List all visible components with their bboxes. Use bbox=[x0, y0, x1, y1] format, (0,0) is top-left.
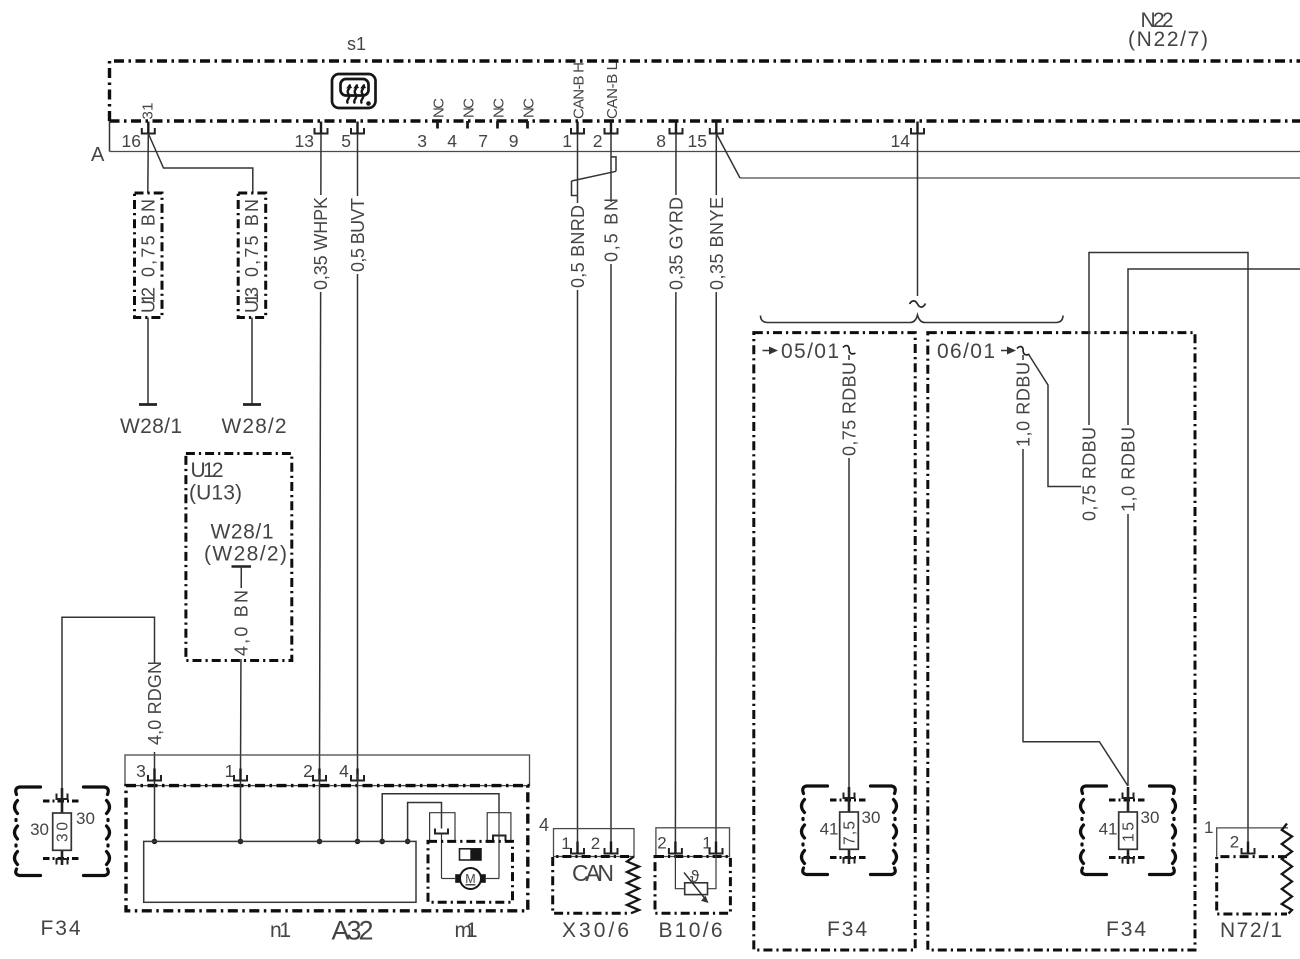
fuse F34 (in 05/01) bbox=[802, 786, 897, 941]
svg-text:A: A bbox=[91, 144, 105, 166]
svg-text:41: 41 bbox=[1099, 820, 1118, 839]
svg-text:0,35 GYRD: 0,35 GYRD bbox=[667, 197, 687, 290]
fuse F34 (in 06/01) bbox=[1081, 786, 1176, 941]
svg-text:2: 2 bbox=[1230, 833, 1239, 852]
svg-text:A32: A32 bbox=[332, 916, 374, 946]
svg-text:CAN-B L: CAN-B L bbox=[604, 62, 621, 119]
B10/6 connector strip bbox=[656, 828, 730, 857]
svg-text:m1: m1 bbox=[455, 919, 478, 942]
svg-text:9: 9 bbox=[509, 131, 519, 151]
svg-text:06/01: 06/01 bbox=[937, 340, 995, 363]
polarity indicator bbox=[460, 849, 482, 860]
svg-text:X30/6: X30/6 bbox=[562, 919, 629, 942]
wire 4,0 BN (ground to A32 pin 1) bbox=[232, 567, 252, 775]
svg-text:U13: U13 bbox=[242, 287, 262, 313]
svg-text:(N22/7): (N22/7) bbox=[1128, 28, 1208, 51]
A32 pin 2 bbox=[313, 769, 326, 782]
svg-text:0,35 WHPK: 0,35 WHPK bbox=[311, 197, 331, 290]
pin 5 bbox=[341, 122, 364, 152]
internal wire upper rail to m1 bbox=[382, 794, 499, 842]
wire 4,0 RDGN (F34 to A32 pin 3) bbox=[62, 617, 165, 800]
ground terminal W28/2 bbox=[222, 405, 287, 439]
fuse F34 (bottom left) bbox=[15, 787, 110, 940]
svg-text:0,75 BN: 0,75 BN bbox=[139, 199, 159, 277]
ground terminal W28/1 bbox=[120, 405, 182, 439]
control module A32 box (dash-dot) bbox=[126, 786, 528, 911]
svg-text:31: 31 bbox=[140, 103, 157, 120]
svg-text:N72/1: N72/1 bbox=[1220, 919, 1282, 942]
A32 pin 3 bbox=[148, 769, 161, 782]
X30/6 connector strip bbox=[554, 829, 635, 857]
distribution brace over 05/01 and 06/01 bbox=[761, 315, 1064, 323]
svg-text:1: 1 bbox=[1204, 818, 1213, 837]
svg-text:B10/6: B10/6 bbox=[659, 919, 723, 942]
svg-text:CAN: CAN bbox=[572, 860, 614, 886]
interruption squiggle on pin14 wire bbox=[910, 301, 926, 307]
wire squiggle top 1,0 RDBU in 06/01 bbox=[1016, 346, 1031, 356]
svg-text:4,0 BN: 4,0 BN bbox=[232, 590, 252, 656]
svg-text:2: 2 bbox=[593, 131, 603, 151]
thermistor element bbox=[684, 867, 709, 903]
svg-text:1: 1 bbox=[225, 761, 235, 781]
pin 15 bbox=[688, 122, 723, 152]
wire pin16 to U12 bbox=[147, 134, 150, 194]
wire 1,0 RDBU (right riser to F34 pin) bbox=[1119, 269, 1300, 786]
svg-text:0,35 BNYE: 0,35 BNYE bbox=[707, 197, 727, 290]
pin 7 NC bbox=[478, 98, 507, 151]
svg-text:4: 4 bbox=[339, 761, 349, 781]
pin 1 / CAN-B H bbox=[562, 62, 587, 151]
svg-text:W28/1: W28/1 bbox=[211, 521, 274, 544]
svg-text:M: M bbox=[465, 872, 475, 886]
pin 9 NC bbox=[509, 98, 538, 151]
svg-text:s1: s1 bbox=[347, 34, 366, 54]
defroster icon (heated rear window symbol) bbox=[332, 74, 376, 108]
svg-text:4,0 RDGN: 4,0 RDGN bbox=[145, 661, 165, 745]
wire 0,5 BUVT (pin5 to A32 pin4) bbox=[348, 134, 368, 775]
svg-text:05/01: 05/01 bbox=[781, 340, 839, 363]
svg-text:U12: U12 bbox=[139, 287, 159, 313]
svg-text:30: 30 bbox=[76, 809, 95, 828]
wire U12 to ground W28/1 bbox=[147, 318, 149, 405]
svg-text:7,5: 7,5 bbox=[842, 821, 859, 845]
svg-text:W28/2: W28/2 bbox=[222, 415, 287, 438]
svg-text:CAN-B H: CAN-B H bbox=[571, 62, 588, 119]
svg-text:15: 15 bbox=[688, 131, 707, 151]
svg-text:F34: F34 bbox=[1106, 918, 1146, 941]
junction dots on n1 bbox=[152, 839, 411, 845]
svg-text:ϑ: ϑ bbox=[690, 867, 700, 886]
internal wire lower rail to m1 bbox=[408, 803, 442, 842]
X30/6 pin 2 bbox=[605, 842, 618, 855]
svg-text:2: 2 bbox=[657, 834, 666, 853]
version box 05/01 (dash-dot) bbox=[754, 333, 915, 950]
pin 2 / CAN-B L bbox=[593, 62, 621, 151]
svg-text:0,75 BN: 0,75 BN bbox=[242, 199, 262, 277]
wire 0,5 BN (pin2 to X30/6 pin2) bbox=[602, 134, 622, 847]
svg-text:NC: NC bbox=[521, 98, 538, 118]
wire 0,35 GYRD (pin8 to B10/6 pin2) bbox=[667, 134, 687, 847]
svg-text:F34: F34 bbox=[827, 918, 867, 941]
wire from pin 15 diagonal to lower bus line bbox=[716, 134, 1300, 179]
wire 0,75 RDBU (right riser) bbox=[1080, 253, 1249, 846]
pin 13 bbox=[295, 122, 328, 152]
m1 pin left bbox=[435, 829, 448, 879]
svg-text:0,5 BNRD: 0,5 BNRD bbox=[568, 205, 588, 288]
wire from pin 14 down bbox=[917, 134, 919, 297]
svg-text:0,5 BN: 0,5 BN bbox=[602, 198, 622, 262]
svg-text:3: 3 bbox=[136, 761, 146, 781]
wire stub from squiggle to 0,75 RDBU loop bbox=[1029, 355, 1089, 487]
A32 pin 4 bbox=[351, 769, 364, 782]
connector sleeve U12 (dash-dot box) bbox=[135, 193, 163, 318]
wire pin16 to U13 (diagonal + horizontal) bbox=[148, 134, 253, 194]
m1 connector bracket left bbox=[430, 813, 455, 842]
A32 connector strip bbox=[125, 755, 530, 786]
wire 0,35 WHPK (pin13 to A32 pin2) bbox=[311, 134, 331, 775]
svg-text:30: 30 bbox=[862, 808, 881, 827]
X30/6 pin 1 bbox=[571, 842, 584, 855]
svg-text:30: 30 bbox=[1141, 808, 1160, 827]
svg-text:8: 8 bbox=[656, 131, 666, 151]
B10/6 pin 1 bbox=[710, 842, 723, 855]
N72/1 connector strip bbox=[1217, 828, 1288, 857]
label N22 (N22/7) bbox=[1128, 9, 1208, 51]
twisted pair tie on CAN wires bbox=[572, 157, 617, 196]
svg-text:2: 2 bbox=[303, 761, 313, 781]
sensor internal wires bbox=[675, 854, 716, 889]
motor m1 box (dash-dot) bbox=[428, 841, 513, 902]
pin 14 bbox=[891, 122, 924, 152]
pin 8 bbox=[656, 122, 682, 152]
B10/6 pin 2 bbox=[669, 842, 682, 855]
svg-text:16: 16 bbox=[122, 131, 141, 151]
heater booster N72/1 box (dash-dot, torn right) bbox=[1217, 824, 1292, 943]
pin 4 NC bbox=[447, 98, 477, 151]
ground terminal inside box bbox=[232, 565, 252, 568]
svg-text:2: 2 bbox=[591, 834, 600, 853]
svg-text:1: 1 bbox=[561, 834, 570, 853]
A32 pin 1 bbox=[234, 769, 247, 782]
pin 16 bbox=[122, 122, 155, 152]
m1 pin right bbox=[493, 813, 506, 879]
wire 0,35 BNYE (pin15 to B10/6 pin1) bbox=[707, 134, 727, 847]
svg-text:14: 14 bbox=[891, 131, 911, 151]
wire 1,0 RDBU (to F34 in 06/01, with elbow) bbox=[1014, 355, 1129, 786]
svg-text:1,0 RDBU: 1,0 RDBU bbox=[1119, 427, 1139, 512]
svg-text:5: 5 bbox=[341, 131, 351, 151]
svg-text:NC: NC bbox=[431, 98, 448, 118]
motor M symbol bbox=[442, 868, 500, 889]
N72/1 pin 2 bbox=[1242, 842, 1255, 855]
wires pins to n1 bbox=[155, 775, 358, 842]
temperature sensor B10/6 box (dash-dot) bbox=[655, 857, 730, 914]
svg-text:3: 3 bbox=[417, 131, 427, 151]
label 31 (rotated) bbox=[140, 103, 157, 120]
wire 0,75 RDBU (to F34 in 05/01) bbox=[840, 355, 860, 787]
svg-text:0,75 RDBU: 0,75 RDBU bbox=[840, 362, 860, 456]
svg-text:0,75 RDBU: 0,75 RDBU bbox=[1080, 427, 1100, 521]
pin 3 NC bbox=[417, 98, 447, 151]
CAN distributor X30/6 box (dash-dot, torn right) bbox=[553, 857, 639, 943]
svg-text:1,0 RDBU: 1,0 RDBU bbox=[1014, 362, 1034, 447]
svg-text:30: 30 bbox=[30, 820, 49, 839]
control unit N22 box (dash-dot border) bbox=[110, 61, 1300, 121]
svg-text:U12: U12 bbox=[191, 459, 224, 482]
svg-text:13: 13 bbox=[295, 131, 314, 151]
svg-text:4: 4 bbox=[539, 815, 549, 835]
wire squiggle top 0,75 RDBU in 05/01 bbox=[842, 345, 857, 355]
svg-text:W28/1: W28/1 bbox=[120, 415, 182, 438]
svg-text:4: 4 bbox=[447, 131, 457, 151]
svg-text:(U13): (U13) bbox=[189, 482, 242, 505]
svg-text:n1: n1 bbox=[270, 919, 291, 942]
svg-text:NC: NC bbox=[461, 98, 478, 118]
svg-text:7: 7 bbox=[478, 131, 488, 151]
svg-text:0,5 BUVT: 0,5 BUVT bbox=[348, 198, 368, 272]
connector sleeve U13 (dash-dot box) bbox=[238, 193, 266, 318]
component box U12 (U13) / W28/1 (W28/2) bbox=[186, 454, 292, 661]
node A bus line bbox=[91, 121, 1300, 166]
svg-text:NC: NC bbox=[491, 98, 508, 118]
m1 connector bracket right bbox=[487, 813, 511, 842]
label 06/01 with arrow bbox=[937, 340, 1016, 363]
electronics unit n1 rectangle bbox=[144, 841, 416, 902]
wire U13 to ground W28/2 bbox=[251, 318, 253, 405]
svg-text:41: 41 bbox=[820, 820, 839, 839]
wire 0,5 BNRD (pin1 to X30/6 pin1) bbox=[568, 134, 588, 847]
version box 06/01 (dash-dot) bbox=[928, 333, 1195, 950]
label 05/01 with arrow bbox=[763, 340, 840, 363]
svg-text:F34: F34 bbox=[41, 917, 81, 940]
svg-text:1: 1 bbox=[562, 131, 572, 151]
